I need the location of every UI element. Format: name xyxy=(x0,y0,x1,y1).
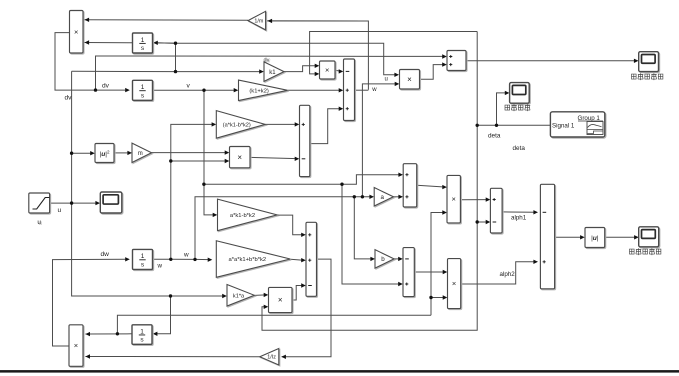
svg-text:1: 1 xyxy=(141,37,145,44)
label w (near product X3) xyxy=(371,87,377,93)
product X4 (dv x deta) xyxy=(320,61,336,79)
label w (above junction) xyxy=(183,252,189,259)
svg-text:u: u xyxy=(37,219,41,226)
label deta (near junction) xyxy=(488,133,501,140)
svg-text:u: u xyxy=(385,77,388,83)
svg-text:×: × xyxy=(74,341,78,350)
wire u branch down into integrator U8 xyxy=(153,296,171,336)
product X2 (v related) xyxy=(230,147,251,168)
sum S4 (+ -) xyxy=(300,105,310,176)
label 侧偏角之差 (scope SC4) xyxy=(630,248,661,255)
svg-text:m: m xyxy=(138,151,143,157)
label alph2 xyxy=(500,271,516,278)
label u (saturation output) xyxy=(58,207,62,214)
gain 1/Iz (mirrored) xyxy=(260,348,279,365)
svg-text:w: w xyxy=(371,87,377,93)
wire product X8 output to sum S5 minus xyxy=(292,283,306,300)
wire gain G3 output to sum S5 second input xyxy=(290,258,305,262)
label dv (above wire into integrator U1) xyxy=(102,83,110,90)
svg-text:u: u xyxy=(58,207,62,214)
label 侧向加速度 (scope SC1) xyxy=(632,73,663,80)
svg-text:k1: k1 xyxy=(269,70,276,76)
wire abs block output to scope SC4 xyxy=(605,235,639,239)
wire product X3 output to sum S1 second input xyxy=(420,62,447,79)
wire u into abs-square xyxy=(72,151,95,155)
svg-text:×: × xyxy=(237,153,242,162)
wire jog up into product X3 in2 xyxy=(362,82,399,91)
sum S7 (- +) xyxy=(403,248,414,297)
label v xyxy=(187,83,191,90)
gain k1 xyxy=(264,58,285,82)
wire deta branch up to scope SC2 xyxy=(497,91,510,126)
label dv (left vertical) xyxy=(65,95,73,102)
svg-text:b: b xyxy=(381,256,385,263)
wire dv: product X1 output down to integrator U1 xyxy=(55,33,130,93)
scope SC4 xyxy=(639,227,659,247)
svg-text:×: × xyxy=(74,27,78,36)
label alph1 xyxy=(511,215,527,222)
wire deta branch to product X4 in2 xyxy=(310,32,478,77)
svg-text:1/Iz: 1/Iz xyxy=(267,355,276,361)
wire v branch down to sum S7 second input xyxy=(342,184,403,286)
integrator U7 (dw to w) xyxy=(133,249,153,269)
svg-text:deta: deta xyxy=(488,133,501,140)
product X1 (top left) xyxy=(70,11,84,54)
wire gain k1 output to product X4 in1 xyxy=(284,64,319,72)
wire w branch to product X2 in2 xyxy=(171,159,230,163)
wire sum S2 output jog to product X3 in2 xyxy=(355,89,369,91)
abs-square block |u|^2 xyxy=(95,144,114,163)
wire product X2 output to sum S4 minus xyxy=(250,157,299,161)
wire sum S4 output to sum S3 third input xyxy=(310,107,343,144)
wire w feedback upper vertical to 1/m xyxy=(266,21,369,90)
abs block |u| xyxy=(585,228,605,248)
integrator U2 (1/s mirrored) xyxy=(133,33,153,53)
wire sum S8 output to big sum S9 minus xyxy=(502,210,538,214)
svg-text:w: w xyxy=(183,252,189,259)
svg-text:×: × xyxy=(278,296,283,305)
wire abs-square to gain m xyxy=(114,151,132,155)
wire gain k1*a output to product X8 in1 xyxy=(255,293,269,297)
product X8 (k1*a x deta) xyxy=(269,287,293,312)
svg-text:alph2: alph2 xyxy=(500,271,516,278)
gain m xyxy=(132,143,152,162)
label deta (second) xyxy=(513,145,526,152)
gain G3 (a*a*k1+b*b*k2) xyxy=(216,241,290,278)
sum S2 (tall, - + +) xyxy=(344,59,355,121)
gain 1/m xyxy=(248,11,266,30)
wire dv branch up to sum S1 first input xyxy=(96,54,447,90)
saturation block u xyxy=(29,193,50,226)
label u (near product X3) xyxy=(385,77,388,83)
svg-text:dv: dv xyxy=(264,58,270,64)
wire sum S5 output down to gain 1/Iz input xyxy=(281,259,331,359)
wire big sum S9 output to abs block xyxy=(555,235,585,239)
label w (below wire) xyxy=(157,263,163,270)
svg-text:×: × xyxy=(452,195,456,204)
integrator U8 (1/s mirrored, bottom) xyxy=(132,325,152,345)
product X5 (tall) xyxy=(447,175,460,223)
wire gain a output to sum S6 second input xyxy=(394,195,403,199)
gain b xyxy=(375,250,394,269)
gain G1 (a*k1-b*k2) with parens xyxy=(216,111,265,138)
wire deta vertical trunk xyxy=(262,32,477,331)
svg-text:1/m: 1/m xyxy=(254,19,263,25)
wire w branch up to gains a and b xyxy=(195,195,374,260)
wire u branch vertical xyxy=(175,43,177,71)
wire vertical feed to product X5 in2 and X6 in2 xyxy=(431,210,447,315)
wire gain m output to product X2 in1 xyxy=(152,150,230,154)
svg-text:(k1+k2): (k1+k2) xyxy=(249,88,269,94)
gain a xyxy=(374,188,393,207)
wire integrator U2 output to product X1 in2 xyxy=(85,40,133,44)
wire u horizontal to gain k1 xyxy=(72,69,264,73)
svg-text:1: 1 xyxy=(141,253,145,260)
wire 1/m output to product X1 in1 xyxy=(85,18,249,22)
wire gain G1 output to sum S4 plus xyxy=(265,122,299,126)
svg-text:1: 1 xyxy=(140,328,144,335)
wire w branch down to gain b xyxy=(354,197,375,261)
sum S1 (+ +) xyxy=(447,51,466,71)
wire v branch to sum S6 first input xyxy=(204,173,403,185)
scope SC2 xyxy=(510,83,530,104)
wire gain 1/Iz output to product X7 in2 xyxy=(85,354,259,358)
svg-text:dv: dv xyxy=(102,83,110,90)
wire sum S1 output to scope SC1 xyxy=(466,59,638,63)
wire branch into product X6 in2 xyxy=(431,295,447,299)
wire gain k1+k2 output to sum S2 second input xyxy=(288,88,344,92)
wire into gain 1/m input xyxy=(268,19,369,23)
label 转角输入 (scope SC2) xyxy=(505,104,530,111)
svg-text:Signal 1: Signal 1 xyxy=(552,123,575,130)
gain G2 (a*k1-b*k2) xyxy=(218,199,278,231)
wire sum S7 output to product X6 in1 xyxy=(414,270,447,274)
svg-text:dw: dw xyxy=(101,251,110,258)
bottom window border xyxy=(0,370,679,373)
gain (k1+k2) xyxy=(239,80,288,101)
scope SC1 xyxy=(639,52,659,72)
scope SC3 xyxy=(100,192,122,213)
svg-text:|u|: |u| xyxy=(591,235,599,242)
wire product X6 output to big sum S9 plus xyxy=(461,260,538,284)
label dw xyxy=(101,251,110,258)
wire w vertical up to gain G1 xyxy=(171,122,216,259)
sum S5 (+ + -) xyxy=(306,222,317,296)
wire integrator U8 output branch up and right xyxy=(117,315,431,334)
big sum S9 (- +) xyxy=(540,184,554,288)
svg-text:(a*k1-b*k2): (a*k1-b*k2) xyxy=(223,122,251,128)
wire dw: product X7 output up to integrator U7 xyxy=(53,257,130,346)
wire saturation output to scope xyxy=(50,201,100,205)
svg-text:1: 1 xyxy=(141,84,145,91)
svg-text:a*a*k1+b*b*k2: a*a*k1+b*b*k2 xyxy=(229,257,267,263)
svg-text:a: a xyxy=(381,194,385,201)
wire w feedback lower vertical to w line xyxy=(361,90,363,197)
svg-text:×: × xyxy=(407,75,412,84)
wire u net: junction to integrator U2 input and down to product X3 in1 xyxy=(153,43,399,77)
svg-text:dv: dv xyxy=(65,95,73,102)
gain k1*a xyxy=(227,285,254,307)
svg-text:×: × xyxy=(325,66,329,75)
wire integrator U8 output to product X7 in1 xyxy=(85,332,132,336)
product X6 (tall) xyxy=(448,259,461,309)
wire v: integrator U1 output to gain k1+k2 xyxy=(153,88,239,92)
wire product X5 output to sum S8 plus xyxy=(461,197,491,201)
wire gain G2 output to sum S5 first input xyxy=(277,215,306,237)
svg-text:×: × xyxy=(452,279,456,288)
integrator U1 (dv to v) xyxy=(133,80,153,100)
svg-text:a*k1-b*k2: a*k1-b*k2 xyxy=(230,213,255,219)
wire gain b output to sum S7 minus xyxy=(394,257,403,261)
wire product X4 output to sum S2 minus xyxy=(335,69,343,73)
product X7 (bottom left) xyxy=(69,325,83,367)
wire v vertical down to gain G2 xyxy=(204,90,217,217)
wire u vertical from saturation down to gain k1*a xyxy=(72,71,227,298)
svg-text:deta: deta xyxy=(513,145,526,152)
svg-text:k1*a: k1*a xyxy=(233,293,245,299)
svg-text:w: w xyxy=(157,263,163,270)
svg-text:alph1: alph1 xyxy=(511,215,527,222)
wire sum S6 output to product X5 in1 xyxy=(417,185,447,189)
sum S8 (+ -) xyxy=(490,188,502,233)
signal builder (Group 1 / Signal 1) xyxy=(550,112,604,137)
product X3 (u x w) xyxy=(400,70,420,90)
wire w: integrator U7 output to gain G3 xyxy=(153,258,213,262)
sum S6 (+ +) xyxy=(403,164,417,207)
wire arrow into integrator U2 xyxy=(153,41,175,45)
wire signal builder output to deta junction xyxy=(477,124,550,126)
wire deta branch to sum S8 minus xyxy=(477,220,490,224)
